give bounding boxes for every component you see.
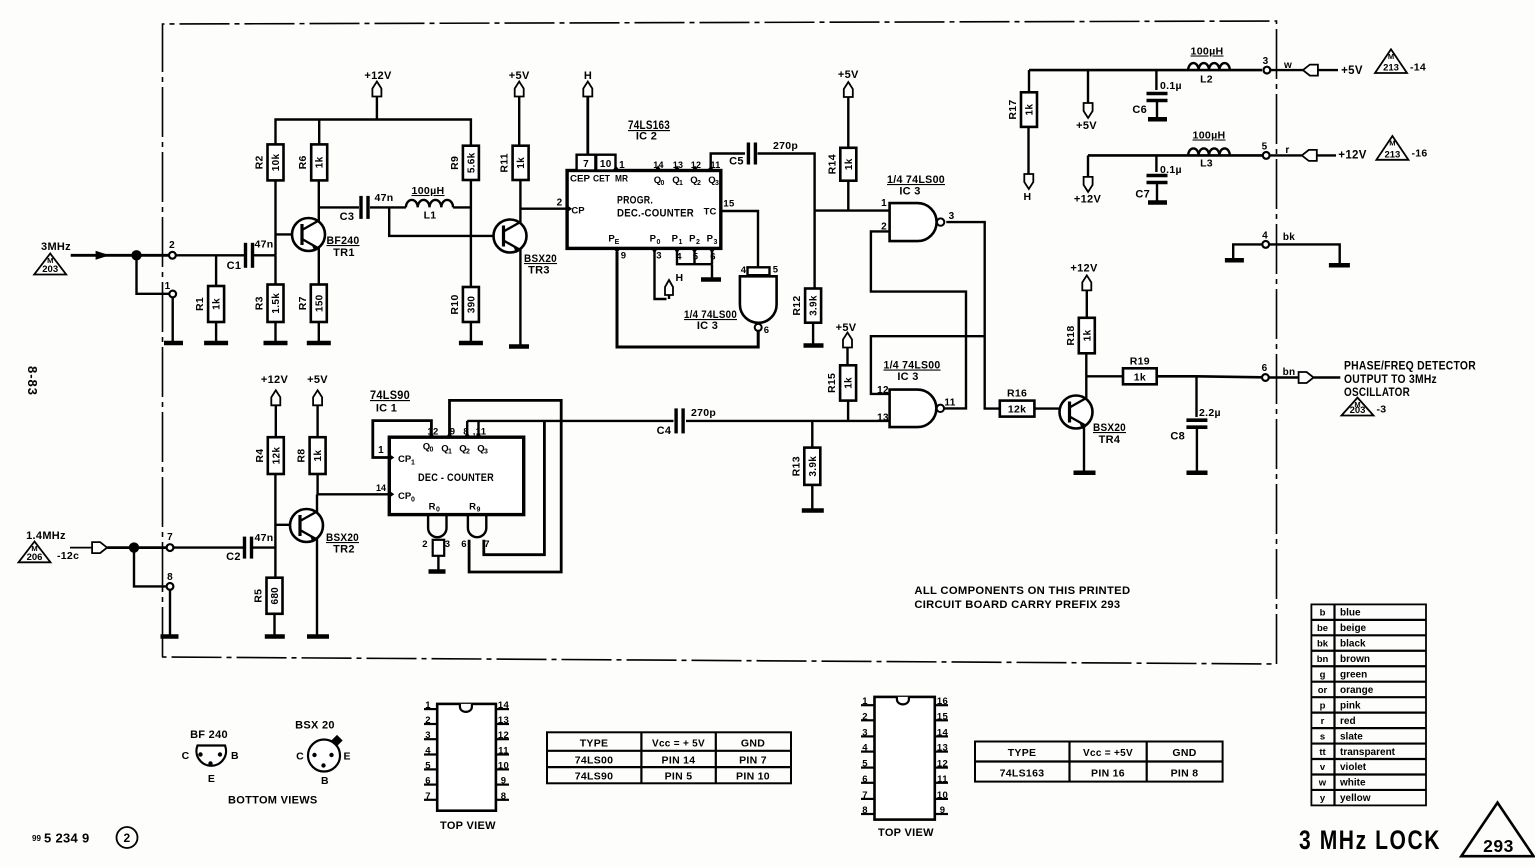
svg-text:74LS90: 74LS90 xyxy=(575,771,614,783)
inductor L2 100uH xyxy=(1188,46,1230,86)
wire R5 to ground xyxy=(273,614,275,635)
svg-text:B: B xyxy=(321,775,329,787)
svg-text:3: 3 xyxy=(714,239,718,246)
ground (TR3) xyxy=(509,344,529,349)
svg-text:C1: C1 xyxy=(227,260,242,272)
wire TC to gate IC3c xyxy=(721,211,758,267)
wire R4 to base node to R5 xyxy=(274,474,276,578)
svg-text:PROGR.: PROGR. xyxy=(617,195,653,207)
wire CP1 loop from Q0 pin 12 xyxy=(373,421,432,458)
ground (R13) xyxy=(802,508,824,513)
svg-text:violet: violet xyxy=(1340,762,1367,773)
svg-text:IC 3: IC 3 xyxy=(899,186,920,198)
wire gate A pin2 cross-couple to gate B out 11 xyxy=(871,231,966,408)
wire gate A output 3 down to R16 xyxy=(946,222,1000,409)
svg-text:293: 293 xyxy=(1483,836,1514,856)
svg-text:5: 5 xyxy=(773,265,779,276)
wire R7 to ground xyxy=(318,322,320,343)
wire R6 to collector node xyxy=(318,180,320,222)
svg-text:C8: C8 xyxy=(1170,431,1185,443)
resistor R14 1k xyxy=(826,148,856,181)
net label bk xyxy=(1283,232,1295,243)
svg-text:16: 16 xyxy=(937,696,948,707)
wire R17 to H arrow xyxy=(1027,127,1029,174)
svg-text:7: 7 xyxy=(167,532,173,543)
svg-text:0: 0 xyxy=(657,239,661,246)
svg-text:4: 4 xyxy=(862,743,868,754)
svg-text:7: 7 xyxy=(484,539,490,550)
junction dot input node 1.4MHz xyxy=(129,542,139,552)
svg-text:TR4: TR4 xyxy=(1099,434,1121,446)
svg-text:3: 3 xyxy=(715,180,719,187)
label BSX20 TR4 xyxy=(1093,422,1126,446)
svg-text:BF 240: BF 240 xyxy=(190,729,228,741)
IC1 pin 8 stub (Q2) xyxy=(463,427,470,438)
svg-text:74LS00: 74LS00 xyxy=(575,755,614,767)
svg-text:H: H xyxy=(1024,191,1032,203)
svg-text:black: black xyxy=(1340,639,1366,650)
svg-text:1: 1 xyxy=(619,160,625,171)
svg-text:R6: R6 xyxy=(297,155,309,169)
svg-text:p: p xyxy=(1320,700,1326,711)
resistor R16 12k xyxy=(1000,388,1035,417)
IC2 CEP box pin 7 xyxy=(577,155,596,171)
wire node7 to C2 xyxy=(173,546,243,548)
nand gate IC3c body xyxy=(740,267,777,331)
svg-text:12: 12 xyxy=(498,730,509,741)
gate IC3c pin 5 xyxy=(773,265,779,276)
IC1 text DEC - COUNTER xyxy=(418,472,494,484)
capacitor C8 2.2u xyxy=(1170,376,1221,442)
resistor R15 1k xyxy=(826,365,856,400)
svg-text:7: 7 xyxy=(862,790,868,801)
wire to output text xyxy=(1314,376,1341,379)
node 6 terminal xyxy=(1262,363,1269,381)
IC2 MR pin 1 wedge xyxy=(613,160,626,171)
pin number 2 (IC2 CP) xyxy=(557,198,563,209)
net label w xyxy=(1283,60,1292,71)
svg-text:CET: CET xyxy=(593,174,610,184)
svg-text:+12V: +12V xyxy=(1074,194,1102,206)
wire gate B pin12 cross-couple to gate A out 3 xyxy=(871,336,985,394)
svg-text:1: 1 xyxy=(862,696,868,707)
wire R16 to TR4 base xyxy=(1034,407,1060,409)
junction dot input node xyxy=(131,250,141,260)
input label 3MHz xyxy=(41,241,71,253)
svg-text:or: or xyxy=(1318,685,1328,696)
svg-text:L1: L1 xyxy=(424,210,437,222)
svg-text:1k: 1k xyxy=(212,298,223,310)
svg-text:14: 14 xyxy=(498,700,510,711)
svg-text:10: 10 xyxy=(498,760,509,771)
ground (IC1 R0) xyxy=(429,569,446,574)
resistor R4 12k xyxy=(254,437,284,474)
wire C6 to ground xyxy=(1156,101,1158,118)
svg-text:10k: 10k xyxy=(271,153,282,171)
ground (C8) xyxy=(1187,471,1208,476)
svg-text:IC 3: IC 3 xyxy=(697,320,718,332)
IC1 pin 11 stub (Q3) xyxy=(473,427,487,438)
wire node1 to ground xyxy=(171,297,173,343)
wire C7 to ground xyxy=(1156,183,1158,201)
svg-text:C3: C3 xyxy=(340,211,355,223)
svg-text:99: 99 xyxy=(32,834,41,843)
svg-text:390: 390 xyxy=(466,296,477,314)
wire node2 to C1 xyxy=(176,254,244,256)
open arrow on 1.4MHz input xyxy=(92,542,107,553)
svg-text:74LS90: 74LS90 xyxy=(370,390,410,402)
svg-text:2: 2 xyxy=(425,715,431,726)
svg-text:PIN 7: PIN 7 xyxy=(739,755,767,767)
title 3 MHz LOCK xyxy=(1299,825,1441,855)
svg-text:slate: slate xyxy=(1340,731,1363,742)
wire 3MHz input xyxy=(71,254,169,257)
wire R11 to TR3 collector node xyxy=(519,180,521,223)
IC1 R0 jumper box to ground xyxy=(433,540,445,570)
svg-text:1: 1 xyxy=(448,449,452,456)
wire C4 to gate B pin 13 xyxy=(686,420,890,422)
IC2 pin 14 stub (Q0) xyxy=(653,160,664,171)
svg-text:12k: 12k xyxy=(271,447,282,465)
svg-text:y: y xyxy=(1320,793,1326,804)
+5V supply arrow (R15) xyxy=(836,322,857,365)
svg-text:5 234 9: 5 234 9 xyxy=(44,831,89,846)
ground (C7) xyxy=(1148,200,1167,205)
svg-text:R12: R12 xyxy=(791,296,803,316)
svg-text:100µH: 100µH xyxy=(412,185,445,197)
wire C2 to TR2 base node xyxy=(253,546,275,548)
svg-text:R3: R3 xyxy=(254,296,266,310)
wire TR1 base xyxy=(276,233,293,235)
IC2 P1 pin 4 wedge xyxy=(672,234,683,263)
svg-text:TR3: TR3 xyxy=(528,265,550,277)
wire collector node to R19 xyxy=(1086,375,1123,377)
label 1/4 74LS00 IC 3 (gate c) xyxy=(684,309,737,332)
svg-text:6: 6 xyxy=(764,325,770,336)
label BF240 TR1 xyxy=(327,235,360,259)
M-triangle 213 (+5V) xyxy=(1375,49,1426,73)
frame dash-dot border of pcb module xyxy=(162,21,1277,664)
M-triangle 203 (output ref) xyxy=(1342,398,1387,416)
node 1 terminal xyxy=(165,281,176,297)
wire node8 to ground xyxy=(169,590,171,635)
svg-text:13: 13 xyxy=(498,715,509,726)
svg-text:12: 12 xyxy=(427,427,438,438)
svg-text:-3: -3 xyxy=(1377,404,1387,416)
wire TR3 collector to IC2 CP pin xyxy=(520,207,567,209)
+5V supply arrow (TR2 collector) xyxy=(307,374,328,437)
wire TR2 base xyxy=(275,524,290,526)
svg-text:1: 1 xyxy=(165,281,171,292)
colour code legend table xyxy=(1311,604,1426,805)
svg-text:1k: 1k xyxy=(516,157,527,169)
resistor R6 1k xyxy=(297,120,327,181)
svg-text:1: 1 xyxy=(425,700,431,711)
svg-text:8: 8 xyxy=(862,805,868,816)
ground (R7) xyxy=(307,341,331,346)
IC2 CP pin wedge xyxy=(567,205,585,216)
ground (TR4) xyxy=(1074,471,1096,476)
svg-text:4: 4 xyxy=(1262,231,1268,242)
svg-text:Vcc = +5V: Vcc = +5V xyxy=(1083,748,1133,759)
svg-text:-12c: -12c xyxy=(57,550,79,562)
gate IC3a pin 2 label xyxy=(881,222,887,233)
wire node6 to arrow xyxy=(1269,376,1299,379)
wire R9 bottom through L1 node to R10 xyxy=(470,180,472,287)
IC2 P2 pin 5 wedge xyxy=(689,234,700,263)
svg-text:+5V: +5V xyxy=(836,322,857,334)
svg-text:pink: pink xyxy=(1340,700,1361,711)
svg-text:11: 11 xyxy=(498,746,509,757)
nand gate IC3b (pins 12,13,11) xyxy=(890,390,944,428)
svg-text:PIN 8: PIN 8 xyxy=(1171,768,1199,780)
wire R14 to gate A pin1 line xyxy=(847,181,849,211)
pinout table 74LS00/74LS90 xyxy=(547,732,791,783)
wire TR4 emitter to ground xyxy=(1083,425,1085,472)
net label r xyxy=(1285,145,1289,156)
M-triangle 213 (+12V) xyxy=(1376,136,1427,160)
wire junction to node 1 xyxy=(137,255,170,293)
inductor L3 100uH xyxy=(1188,130,1230,170)
svg-text:C4: C4 xyxy=(657,425,672,437)
svg-text:TOP VIEW: TOP VIEW xyxy=(878,827,934,839)
note all components prefix 293 xyxy=(914,585,1130,611)
IC package DIP-14 top view xyxy=(424,700,509,811)
wire collector node to IC1 CP0 xyxy=(318,493,390,495)
svg-text:R8: R8 xyxy=(296,449,308,463)
+12V supply arrow (TR1 stage) xyxy=(364,70,392,120)
svg-text:L3: L3 xyxy=(1200,158,1213,170)
svg-text:v: v xyxy=(1320,762,1326,773)
svg-text:B: B xyxy=(231,750,239,762)
svg-text:1: 1 xyxy=(679,239,683,246)
svg-text:3MHz: 3MHz xyxy=(41,241,71,253)
+5V supply arrow (R14) xyxy=(838,69,859,148)
svg-text:C5: C5 xyxy=(729,156,744,168)
svg-text:3 MHz LOCK: 3 MHz LOCK xyxy=(1299,825,1441,855)
IC1 R9 label xyxy=(469,502,480,514)
svg-text:E: E xyxy=(344,751,351,763)
resistor R19 1k xyxy=(1123,355,1157,384)
svg-text:2: 2 xyxy=(422,539,428,550)
BSX20 package bottom view xyxy=(295,720,351,788)
svg-text:7: 7 xyxy=(425,791,431,802)
svg-text:M: M xyxy=(1388,52,1394,61)
svg-text:R5: R5 xyxy=(253,589,265,603)
IC2 output labels Q0-Q3 xyxy=(654,175,719,187)
wire r-line xyxy=(1088,154,1262,157)
wire R8 to collector node xyxy=(316,474,318,494)
svg-text:12k: 12k xyxy=(1008,404,1026,416)
svg-text:3: 3 xyxy=(1263,56,1269,67)
IC1 R9set reset arch pins 6,7 xyxy=(461,515,490,550)
svg-text:PIN 5: PIN 5 xyxy=(665,771,693,783)
svg-text:1k: 1k xyxy=(315,156,326,168)
svg-text:0: 0 xyxy=(436,507,440,514)
wire Q2/Q3 to C4 line xyxy=(467,421,673,437)
label TOP VIEW (DIP16) xyxy=(878,827,934,839)
node 3 terminal xyxy=(1263,56,1271,74)
svg-text:red: red xyxy=(1340,716,1356,727)
svg-text:GND: GND xyxy=(741,738,765,750)
ground (R3) xyxy=(264,341,288,346)
svg-text:6: 6 xyxy=(425,776,431,787)
resistor R3 1.5k xyxy=(254,285,284,323)
svg-text:1k: 1k xyxy=(1025,104,1036,116)
resistor R13 3.9k xyxy=(790,421,820,485)
svg-text:TOP VIEW: TOP VIEW xyxy=(440,820,496,832)
resistor R2 10k xyxy=(254,144,284,180)
svg-text:blue: blue xyxy=(1340,608,1361,619)
node 2 terminal xyxy=(169,240,176,259)
svg-text:9: 9 xyxy=(501,776,507,787)
text PHASE/FREQ DETECTOR OUTPUT xyxy=(1344,361,1476,400)
wire TR1 emitter to R7 xyxy=(318,247,320,285)
resistor R7 150 xyxy=(297,285,327,323)
svg-text:2: 2 xyxy=(862,711,868,722)
capacitor C6 0.1u xyxy=(1132,70,1182,116)
resistor R9 5.6k xyxy=(449,146,479,180)
svg-text:0.1µ: 0.1µ xyxy=(1160,164,1182,176)
svg-text:5: 5 xyxy=(862,759,868,770)
svg-text:11: 11 xyxy=(937,774,948,785)
IC2 TC pin 15 xyxy=(704,199,735,218)
svg-text:270p: 270p xyxy=(691,407,716,419)
wire R15 to C4 line xyxy=(847,401,849,421)
svg-text:R10: R10 xyxy=(449,294,461,314)
svg-text:TR1: TR1 xyxy=(333,247,355,259)
svg-text:6: 6 xyxy=(1262,363,1268,374)
svg-text:R19: R19 xyxy=(1130,355,1150,367)
node 8 terminal xyxy=(167,572,174,590)
svg-text:+5V: +5V xyxy=(307,374,328,386)
svg-text:BSX20: BSX20 xyxy=(524,253,557,265)
svg-text:CP: CP xyxy=(398,454,412,465)
svg-text:CP: CP xyxy=(398,491,412,502)
svg-text:5: 5 xyxy=(1262,142,1268,153)
IC2 P3 pin 6 wedge xyxy=(707,234,718,263)
svg-text:1.4MHz: 1.4MHz xyxy=(26,530,66,542)
M-triangle 206 (1.4MHz source) xyxy=(19,542,80,563)
svg-text:C6: C6 xyxy=(1132,104,1147,116)
svg-text:13: 13 xyxy=(673,160,684,170)
svg-text:R: R xyxy=(469,502,476,513)
ground (R10) xyxy=(459,341,483,346)
+5V feed arrow xyxy=(1076,70,1097,132)
svg-text:74LS163: 74LS163 xyxy=(1000,768,1045,780)
svg-text:R16: R16 xyxy=(1007,388,1027,400)
svg-text:1/4 74LS00: 1/4 74LS00 xyxy=(884,360,941,372)
svg-text:8: 8 xyxy=(167,572,173,583)
svg-text:11: 11 xyxy=(944,398,955,409)
svg-text:1k: 1k xyxy=(844,158,855,170)
svg-text:12: 12 xyxy=(937,759,948,770)
svg-text:C: C xyxy=(296,751,304,763)
capacitor C7 0.1u xyxy=(1135,155,1182,200)
svg-text:yellow: yellow xyxy=(1340,793,1371,804)
svg-text:IC 3: IC 3 xyxy=(897,371,918,383)
ground (P1-P3) xyxy=(701,277,721,282)
resistor R18 1k xyxy=(1065,318,1095,354)
inductor L1 100uH xyxy=(406,185,471,222)
svg-text:0: 0 xyxy=(430,447,434,454)
label 74LS90 IC1 xyxy=(370,390,410,415)
svg-text:13: 13 xyxy=(937,743,948,754)
H level arrow (R17) xyxy=(1024,174,1034,203)
svg-text:R1: R1 xyxy=(194,297,206,311)
svg-text:0: 0 xyxy=(661,180,665,187)
svg-text:+5V: +5V xyxy=(838,69,859,81)
+12V feed arrow xyxy=(1074,155,1102,205)
gate IC3a pin 1 label xyxy=(881,198,887,209)
IC1 pin 9 stub (Q1) xyxy=(446,427,455,438)
resistor R11 1k xyxy=(499,146,529,180)
gate IC3b pin 13 label xyxy=(877,413,889,424)
svg-text:OUTPUT TO 3MHz: OUTPUT TO 3MHz xyxy=(1344,374,1437,386)
node 7 terminal xyxy=(167,532,174,551)
svg-text:R: R xyxy=(429,502,436,513)
transistor TR4 BSX20 xyxy=(1060,396,1093,430)
transistor TR2 BSX20 xyxy=(290,509,323,543)
ground (R1) xyxy=(204,341,228,346)
IC2 pin 13 stub (Q1) xyxy=(673,160,684,171)
wire R2 bottom to node xyxy=(274,180,276,255)
+5V supply arrow (TR3 stage) xyxy=(509,70,530,146)
H level arrow (P0) xyxy=(665,272,683,299)
nand gate IC3a (pins 1,2,3) xyxy=(890,203,945,241)
svg-text:+12V: +12V xyxy=(364,70,392,82)
svg-text:CEP: CEP xyxy=(570,174,590,184)
svg-text:+12V: +12V xyxy=(1338,150,1366,162)
BF240 package bottom view xyxy=(182,729,239,785)
wire 1.4MHz input xyxy=(70,547,92,549)
svg-text:PIN 16: PIN 16 xyxy=(1091,768,1125,780)
wire arrow to junction xyxy=(107,546,168,549)
svg-text:47n: 47n xyxy=(375,192,394,204)
svg-text:680: 680 xyxy=(270,587,281,605)
IC package DIP-16 top view xyxy=(861,696,948,819)
svg-text:BSX20: BSX20 xyxy=(1093,422,1126,434)
wire PE to gate IC3c output xyxy=(617,252,758,347)
svg-text:213: 213 xyxy=(1383,63,1399,74)
svg-text:brown: brown xyxy=(1340,654,1370,665)
open arrow output bn xyxy=(1299,372,1314,383)
ground (node 8) xyxy=(161,634,179,639)
capacitor C3 47n xyxy=(340,192,394,223)
IC2 P0 pin 3 wedge xyxy=(650,234,662,262)
svg-text:R4: R4 xyxy=(254,449,266,463)
svg-text:2: 2 xyxy=(696,239,700,246)
svg-text:R15: R15 xyxy=(826,373,838,393)
svg-text:TYPE: TYPE xyxy=(1008,747,1037,759)
open arrow +5V in xyxy=(1270,65,1338,76)
svg-text:5: 5 xyxy=(425,760,431,771)
label BOTTOM VIEWS xyxy=(228,795,318,807)
resistor R1 1k xyxy=(194,255,224,343)
resistor R8 1k xyxy=(296,437,326,474)
svg-text:CP: CP xyxy=(571,206,585,217)
IC1 R0 reset arch pins 2,3 xyxy=(422,515,450,550)
svg-text:beige: beige xyxy=(1340,623,1367,634)
gate IC3a pin 3 label xyxy=(949,211,955,222)
svg-text:1: 1 xyxy=(881,198,887,209)
panel triangle 293 xyxy=(1461,803,1533,857)
label BSX20 TR3 xyxy=(524,253,557,277)
svg-text:+12V: +12V xyxy=(261,374,289,386)
svg-text:tt: tt xyxy=(1319,747,1326,758)
svg-text:14: 14 xyxy=(937,727,949,738)
svg-text:be: be xyxy=(1317,623,1328,634)
